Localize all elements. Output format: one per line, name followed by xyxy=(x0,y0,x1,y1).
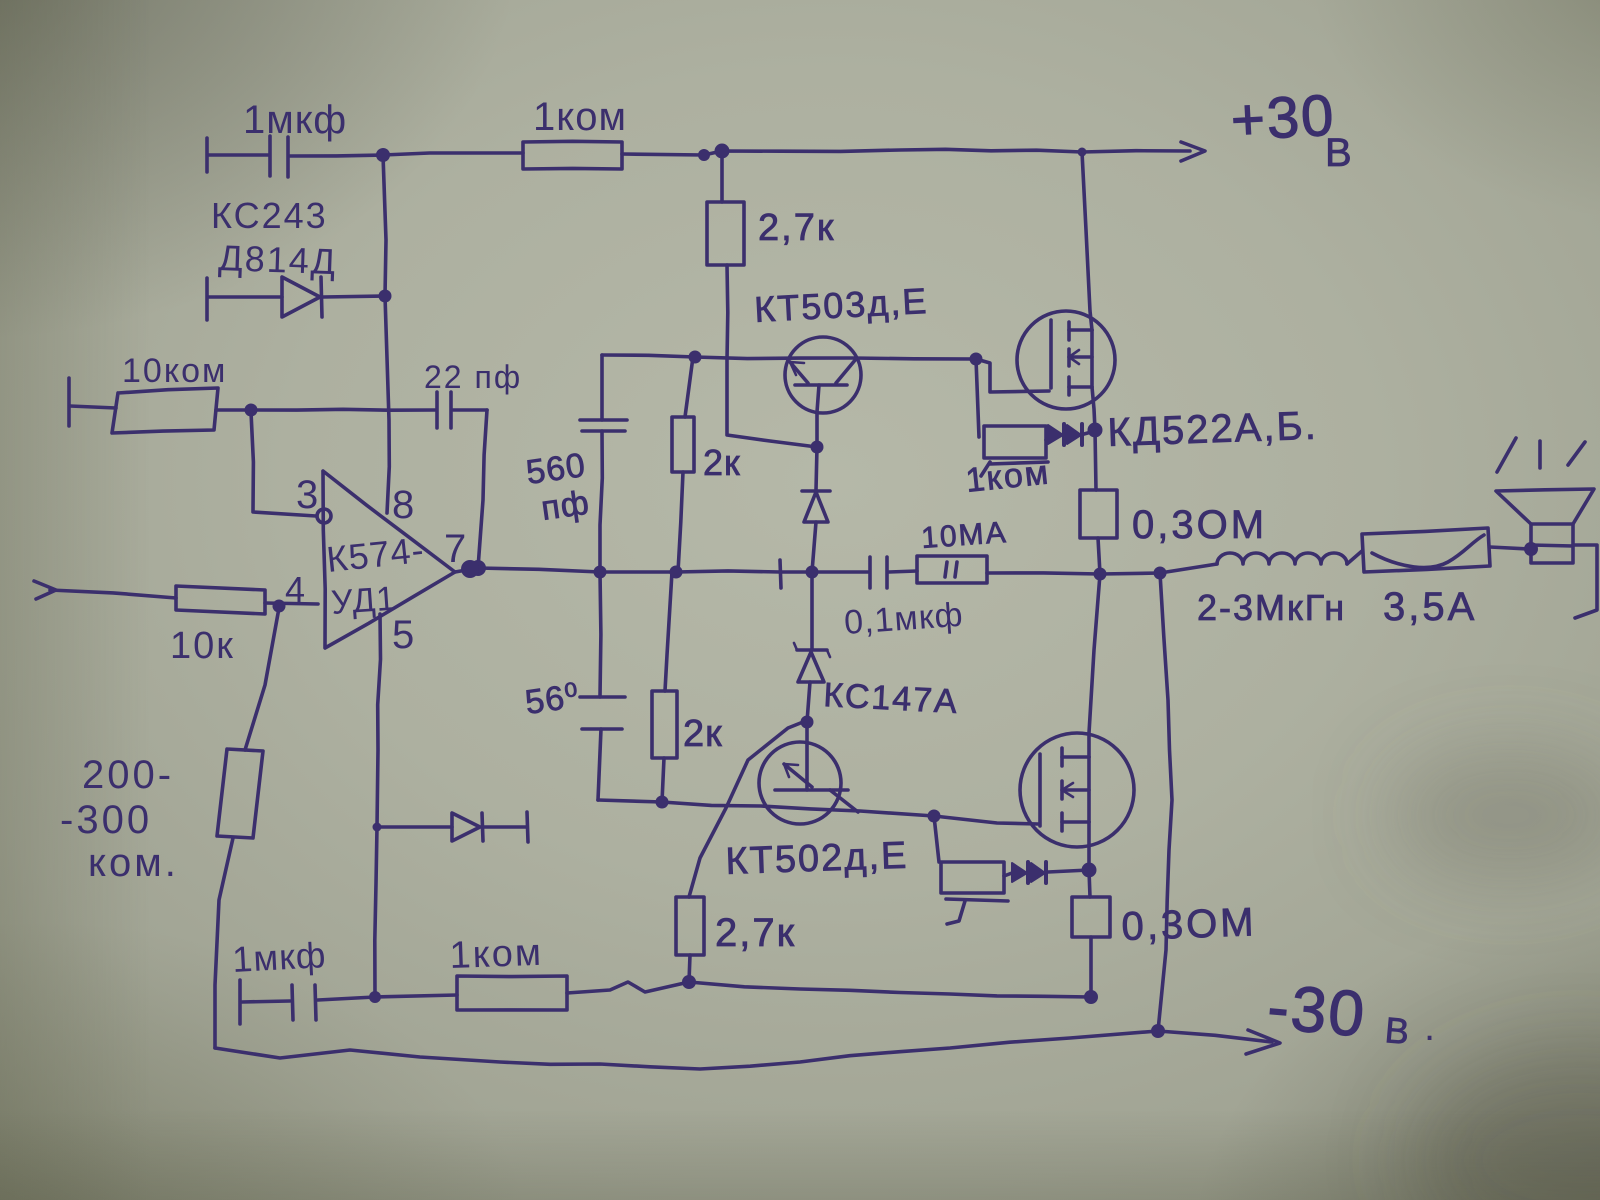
svg-text:Д814Д: Д814Д xyxy=(218,237,338,282)
svg-text:1мкф: 1мкф xyxy=(243,98,347,142)
svg-text:-30: -30 xyxy=(1265,970,1369,1050)
svg-text:.: . xyxy=(1424,1005,1435,1049)
svg-text:2,7к: 2,7к xyxy=(715,911,796,955)
svg-text:10ком: 10ком xyxy=(122,352,227,390)
svg-text:3,5А: 3,5А xyxy=(1383,585,1477,629)
svg-text:56⁰: 56⁰ xyxy=(523,677,582,722)
svg-text:2,7к: 2,7к xyxy=(758,207,835,249)
svg-text:7: 7 xyxy=(444,527,466,571)
svg-text:22 пф: 22 пф xyxy=(424,359,522,395)
svg-text:В: В xyxy=(1325,131,1352,175)
svg-text:1ком: 1ком xyxy=(533,95,627,139)
svg-text:1ком: 1ком xyxy=(449,932,544,977)
svg-text:-300: -300 xyxy=(60,798,152,842)
svg-text:В: В xyxy=(1383,1009,1410,1052)
svg-text:КД522А,Б.: КД522А,Б. xyxy=(1107,404,1319,455)
svg-text:КС243: КС243 xyxy=(211,195,328,236)
svg-text:1мкф: 1мкф xyxy=(231,934,327,980)
svg-text:УД1: УД1 xyxy=(330,580,398,622)
svg-text:+30: +30 xyxy=(1229,83,1337,153)
svg-text:4: 4 xyxy=(285,569,305,610)
svg-text:2к: 2к xyxy=(703,442,741,483)
svg-text:ком.: ком. xyxy=(88,841,179,885)
svg-text:10к: 10к xyxy=(170,625,235,667)
svg-text:КС147А: КС147А xyxy=(823,676,960,721)
svg-text:200-: 200- xyxy=(82,753,174,797)
svg-text:2-3МкГн: 2-3МкГн xyxy=(1197,587,1346,628)
svg-text:КТ502д,Е: КТ502д,Е xyxy=(725,835,909,883)
svg-text:5: 5 xyxy=(392,613,414,657)
svg-text:0,3ОМ: 0,3ОМ xyxy=(1132,503,1267,547)
svg-text:3: 3 xyxy=(296,473,318,517)
svg-text:10МА: 10МА xyxy=(920,516,1008,555)
svg-text:пф: пф xyxy=(539,484,592,528)
svg-text:0,3ОМ: 0,3ОМ xyxy=(1121,900,1258,949)
svg-text:2к: 2к xyxy=(683,713,723,755)
svg-text:8: 8 xyxy=(392,483,414,527)
